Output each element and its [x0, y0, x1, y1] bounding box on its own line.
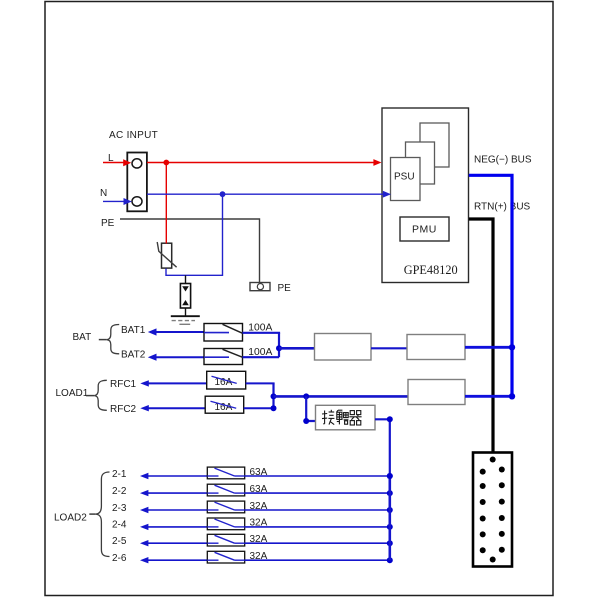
wire 2-6 [140, 557, 148, 563]
wire GDT top [185, 275, 187, 284]
node contactor in [303, 418, 309, 424]
wire L to PSU [147, 162, 374, 164]
PSU module middle [406, 142, 435, 184]
wire 2-4 to bus [245, 526, 390, 528]
svg-text:PMU: PMU [412, 224, 437, 236]
wire RFC1 [140, 380, 149, 386]
svg-text:LOAD1: LOAD1 [56, 388, 89, 399]
svg-text:2-3: 2-3 [112, 503, 127, 514]
PE terminal lug [250, 283, 270, 291]
breaker CB-2-3 32A [207, 501, 244, 513]
node 2-6 junction [387, 557, 393, 563]
svg-text:RFC2: RFC2 [110, 404, 137, 415]
svg-text:BAT1: BAT1 [121, 325, 146, 336]
breaker CB-2-1 63A [207, 467, 244, 479]
svg-text:16A: 16A [215, 377, 233, 388]
wire BAT1 out [243, 332, 281, 334]
wire shunt link [371, 347, 407, 349]
wire 2-4 [140, 524, 148, 530]
breaker CB-RFC1 16A [207, 371, 246, 389]
PMU module U2 [400, 217, 449, 241]
wire BAT2 out [243, 356, 280, 358]
wire shunt to NEG bus 2 [465, 395, 512, 398]
wire 2-3 [140, 507, 148, 513]
breaker CB-2-2 63A [207, 484, 244, 496]
wire contactor out [375, 419, 390, 476]
wire varistor bottom [166, 269, 223, 276]
wire BAT to shunt [279, 347, 315, 350]
svg-text:RFC1: RFC1 [110, 379, 137, 390]
node N junction [220, 191, 226, 197]
svg-text:LOAD2: LOAD2 [54, 513, 87, 524]
svg-text:2-1: 2-1 [112, 469, 127, 480]
wire RFC vertical [272, 383, 274, 408]
svg-text:RTN(+) BUS: RTN(+) BUS [474, 202, 531, 213]
wire L drop to varistor [165, 163, 167, 244]
breaker CB-RFC2 16A [205, 396, 244, 413]
breaker CB-BAT2 100A [204, 349, 243, 365]
wire BAT bus vertical [278, 333, 280, 357]
varistor RV1 [157, 242, 176, 268]
wire GDT to ground [185, 308, 187, 316]
svg-text:GPE48120: GPE48120 [404, 263, 458, 277]
wire 2-5 [140, 540, 148, 546]
node L junction [163, 160, 169, 166]
wire NEG(-) bus [469, 175, 512, 396]
brace BAT [107, 325, 119, 354]
wire RFC1 out [246, 382, 275, 384]
svg-text:PE: PE [278, 283, 292, 294]
wire N to PSU [147, 193, 383, 195]
node contactor out [387, 416, 393, 422]
wire N drop [222, 194, 224, 276]
node contactor tap [303, 393, 309, 399]
wire RFC2 out [244, 407, 274, 409]
svg-text:AC INPUT: AC INPUT [109, 130, 158, 141]
wire shunt to NEG bus [465, 346, 512, 349]
wire BAT1 [148, 328, 157, 335]
svg-text:PSU: PSU [394, 172, 415, 183]
wire 2-1 [140, 473, 148, 479]
battery string BT1 [473, 453, 512, 567]
svg-text:PE: PE [101, 218, 115, 229]
wire 2-5 to bus [245, 542, 390, 544]
shunt R-BAT-A [315, 334, 372, 361]
gas discharge tube F1 [180, 284, 190, 309]
svg-text:BAT2: BAT2 [121, 350, 146, 361]
wire 2-2 [140, 490, 148, 496]
wire N input [103, 200, 124, 202]
wire RTN(+) bus [469, 219, 493, 454]
breaker CB-BAT1 100A [204, 324, 243, 342]
wire L input [103, 162, 124, 164]
contactor K1 [316, 405, 376, 430]
svg-text:2-4: 2-4 [112, 520, 127, 531]
node BAT junction [276, 345, 282, 351]
breaker CB-2-5 32A [207, 534, 244, 546]
node RFC junction [271, 393, 277, 399]
node 2-4 junction [387, 524, 393, 530]
rectifier cabinet GPE48120 [382, 108, 469, 283]
wire 2-2 to bus [245, 492, 390, 494]
wire LOAD2 bus [388, 476, 391, 560]
brace LOAD1 [94, 380, 107, 410]
PSU module front U1 [391, 158, 421, 201]
svg-text:NEG(−) BUS: NEG(−) BUS [474, 154, 532, 165]
svg-text:N: N [100, 188, 107, 199]
svg-text:2-6: 2-6 [112, 553, 127, 564]
shunt R-LOAD1 [408, 380, 465, 405]
svg-text:2-2: 2-2 [112, 486, 127, 497]
wire contactor drop [306, 396, 315, 421]
svg-text:2-5: 2-5 [112, 536, 127, 547]
wire RFC2 [140, 405, 149, 411]
wire PE [120, 219, 260, 283]
wire BAT2 [148, 354, 157, 361]
node NEG bus junction 2 [509, 393, 515, 399]
wire 2-6 to bus [245, 559, 390, 561]
brace LOAD2 [96, 472, 110, 557]
node RFC2 junction [271, 405, 277, 411]
breaker CB-2-4 32A [207, 518, 244, 530]
shunt R-BAT-B [407, 335, 465, 360]
node 2-1 junction [387, 473, 393, 479]
node NEG bus junction 1 [509, 344, 515, 350]
PSU module back [420, 123, 449, 167]
wire 2-3 to bus [245, 509, 390, 511]
wire RFC to shunt [274, 395, 409, 398]
node 2-5 junction [387, 540, 393, 546]
ground [171, 316, 200, 324]
node 2-2 junction [387, 490, 393, 496]
breaker CB-2-6 32A [207, 551, 244, 563]
svg-text:BAT: BAT [73, 332, 92, 343]
node 2-3 junction [387, 507, 393, 513]
terminal block TB1 [127, 153, 147, 212]
node LOAD2 top [387, 473, 393, 479]
wire 2-1 to bus [245, 475, 390, 477]
